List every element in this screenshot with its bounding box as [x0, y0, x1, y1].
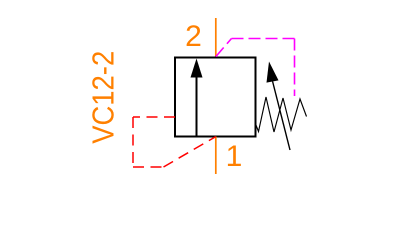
pilot line from port 1, top horizontal segment (red dashed) — [133, 116, 175, 118]
pilot line from port 1, left vertical segment (red dashed) — [132, 117, 134, 167]
valve body — [175, 58, 256, 137]
pilot line from port 1, diagonal segment to port 1 (red dashed) — [164, 137, 216, 167]
pilot line from port 2, diagonal segment (magenta dashed) — [216, 39, 232, 57]
pilot line from port 2, horizontal segment (magenta dashed) — [232, 38, 295, 40]
svg-text:VC12-2: VC12-2 — [86, 51, 121, 144]
svg-text:1: 1 — [226, 140, 243, 173]
pilot line from port 1, bottom horizontal segment (red dashed) — [133, 166, 164, 168]
port 2 line — [215, 18, 217, 57]
flow arrow shaft — [196, 77, 198, 137]
flow arrow head — [191, 59, 203, 78]
svg-text:2: 2 — [185, 20, 202, 53]
spring — [255, 97, 307, 132]
pilot line from port 2, vertical segment to spring (magenta dashed) — [294, 39, 296, 97]
adjustment arrow head — [267, 62, 279, 83]
port 1 line — [215, 137, 217, 174]
adjustment arrow shaft — [273, 82, 290, 151]
